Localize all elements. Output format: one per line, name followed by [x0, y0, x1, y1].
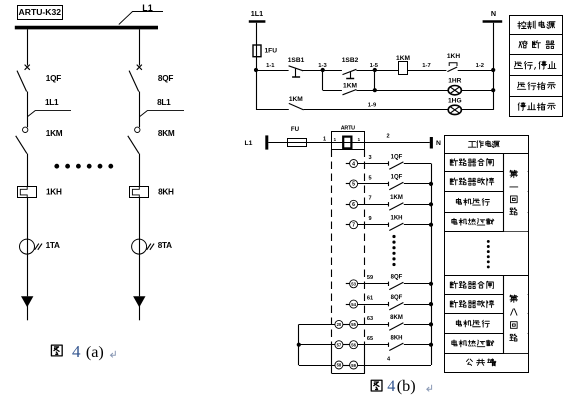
- feeder arrow: [21, 296, 33, 307]
- svg-text:N: N: [491, 9, 496, 18]
- wire stub: [346, 163, 350, 165]
- svg-text:L1: L1: [142, 3, 153, 13]
- wire: [299, 324, 335, 326]
- wire: [358, 183, 389, 185]
- common jumper bus (left): [298, 324, 300, 365]
- terminal N: [483, 9, 503, 21]
- wire stub: [346, 183, 350, 185]
- wire: [358, 204, 389, 206]
- device label box ARTU-K32: [18, 6, 63, 20]
- svg-text:ARTU: ARTU: [341, 126, 355, 132]
- contact 1KM: [389, 202, 404, 210]
- svg-text:1KH: 1KH: [447, 53, 460, 60]
- contact 1KM auxiliary (seal-in): [343, 90, 357, 95]
- svg-text:1-5: 1-5: [370, 63, 379, 69]
- svg-text:FU: FU: [291, 126, 300, 133]
- wire link: [374, 70, 376, 90]
- svg-text:4: 4: [387, 377, 395, 395]
- junction node 1-1: [254, 63, 275, 72]
- caption figure 4(a): [51, 342, 115, 361]
- junction: [429, 282, 433, 286]
- svg-text:20: 20: [337, 322, 342, 327]
- wire: [358, 324, 389, 326]
- svg-text:6: 6: [352, 202, 355, 208]
- wire: [27, 305, 29, 320]
- busbar L1: [15, 26, 158, 30]
- wire: [139, 92, 141, 128]
- wire: [27, 154, 29, 187]
- wire: [365, 142, 430, 144]
- svg-text:1KM: 1KM: [289, 96, 303, 103]
- wire: [404, 324, 431, 326]
- svg-text:1SB2: 1SB2: [342, 57, 359, 64]
- wire: [139, 197, 141, 239]
- wire: [306, 142, 332, 144]
- wire: [404, 304, 431, 306]
- junction: [429, 202, 433, 206]
- caption figure 4(b): [371, 377, 431, 395]
- contact 1QF: [389, 182, 404, 190]
- svg-text:1HR: 1HR: [448, 78, 461, 85]
- svg-text:8L1: 8L1: [157, 98, 171, 107]
- contactor 8KM: [128, 127, 140, 154]
- wire: [27, 197, 29, 239]
- ellipsis dots between feeders: [54, 164, 113, 169]
- svg-text:8KM: 8KM: [390, 315, 403, 321]
- wire: [27, 29, 29, 65]
- fuse 1FU: [253, 45, 261, 57]
- breaker 8QF: [129, 65, 142, 92]
- wire: [356, 90, 493, 92]
- svg-text:1: 1: [323, 137, 326, 143]
- junction: [429, 182, 433, 186]
- svg-text:ARTU-K32: ARTU-K32: [19, 7, 62, 17]
- terminal 59: [350, 361, 358, 369]
- terminal 53: [350, 280, 358, 288]
- wire stop branch: [256, 70, 289, 110]
- junction: [429, 302, 433, 306]
- svg-text:8TA: 8TA: [158, 241, 172, 250]
- terminal 54: [350, 300, 358, 308]
- pushbutton 1SB1 normally closed: [289, 66, 304, 77]
- wire stub: [346, 224, 350, 226]
- svg-text:5: 5: [352, 182, 355, 188]
- svg-text:1KM: 1KM: [390, 195, 403, 201]
- contact 8QF: [389, 282, 404, 290]
- ARTU power module box: [332, 132, 365, 150]
- junction: [373, 88, 377, 92]
- junction: [429, 223, 433, 227]
- terminal 1L1: [249, 9, 266, 21]
- wire: [358, 283, 389, 285]
- wire parallel branch: [323, 70, 342, 91]
- wire: [139, 154, 141, 187]
- contact 8QF: [389, 302, 404, 310]
- svg-text:1-9: 1-9: [368, 102, 377, 108]
- svg-text:1TA: 1TA: [46, 241, 60, 250]
- junction: [491, 68, 495, 72]
- svg-text:1-3: 1-3: [318, 63, 327, 69]
- svg-text:61: 61: [367, 296, 373, 302]
- run lamp 1HR: [448, 86, 461, 95]
- wire: [299, 365, 335, 367]
- wire: [356, 70, 398, 72]
- svg-text:8QF: 8QF: [158, 74, 173, 83]
- wire stub: [346, 283, 350, 285]
- wire: [358, 344, 389, 346]
- svg-text:8KH: 8KH: [158, 188, 174, 197]
- wire stub: [346, 304, 350, 306]
- terminal 4: [350, 160, 358, 168]
- svg-text:8KH: 8KH: [390, 336, 402, 342]
- wire stub: [346, 204, 350, 206]
- svg-text:(b): (b): [397, 377, 416, 395]
- junction: [491, 88, 495, 92]
- wire: [256, 23, 258, 45]
- svg-text:57: 57: [337, 342, 342, 347]
- svg-text:53: 53: [351, 282, 356, 287]
- svg-text:1HG: 1HG: [448, 98, 462, 105]
- net label 1L1 with leader: [28, 98, 71, 117]
- terminal L1 (b): [245, 135, 267, 149]
- junction node 1-5: [370, 63, 379, 72]
- junction: [429, 322, 433, 326]
- ellipsis dots (channels 2..7): [392, 235, 395, 266]
- contact 1QF: [389, 161, 404, 169]
- wire: [404, 183, 431, 185]
- wire N bus: [493, 23, 495, 110]
- svg-text:8KM: 8KM: [158, 129, 175, 138]
- wire: [358, 365, 389, 367]
- contact 8KM: [389, 322, 404, 330]
- svg-text:N: N: [436, 140, 441, 147]
- svg-text:7: 7: [352, 223, 355, 229]
- svg-text:(a): (a): [86, 343, 104, 361]
- junction: [297, 343, 301, 347]
- ARTU enclosure dashed boundary: [332, 150, 365, 374]
- svg-text:1-2: 1-2: [476, 63, 484, 69]
- current transformer 1TA: [20, 239, 43, 254]
- wire: [256, 70, 289, 72]
- wire: [343, 324, 350, 326]
- wire: [27, 254, 29, 296]
- svg-text:1SB1: 1SB1: [288, 57, 305, 64]
- svg-text:56: 56: [351, 343, 356, 348]
- wire: [404, 283, 431, 285]
- wire: [358, 224, 389, 226]
- wire: [458, 70, 494, 72]
- wire: [404, 224, 431, 226]
- wire: [404, 204, 431, 206]
- feeder arrow: [133, 296, 145, 307]
- svg-text:5: 5: [368, 175, 371, 181]
- legend table: control circuit functions: [510, 16, 563, 117]
- svg-text:1QF: 1QF: [46, 74, 61, 83]
- wire: [27, 92, 29, 128]
- contact 1KM auxiliary NC (stop indication): [289, 103, 304, 110]
- fuse FU: [288, 139, 307, 147]
- svg-text:1KM: 1KM: [46, 129, 63, 138]
- wire common to bus: [389, 365, 432, 367]
- contactor coil 1KM: [399, 62, 408, 75]
- terminal 7: [350, 221, 358, 229]
- contact 8KH: [389, 343, 404, 351]
- terminal 57 (common): [335, 341, 343, 349]
- wire: [404, 163, 431, 165]
- breaker 1QF: [17, 65, 30, 92]
- wire: [304, 109, 494, 111]
- terminal 20 (common): [335, 320, 343, 328]
- wire: [407, 70, 446, 72]
- svg-text:4: 4: [72, 342, 81, 361]
- svg-text:1L1: 1L1: [45, 98, 59, 107]
- wire: [139, 254, 141, 296]
- terminal 58 (common): [335, 361, 343, 369]
- svg-text:1KH: 1KH: [46, 188, 62, 197]
- thermal contact 1KH: [447, 63, 457, 72]
- svg-text:1-7: 1-7: [422, 63, 430, 69]
- svg-text:3: 3: [368, 155, 371, 161]
- svg-text:58: 58: [337, 363, 342, 368]
- svg-text:1KH: 1KH: [390, 216, 402, 222]
- terminal 6: [350, 200, 358, 208]
- svg-text:8QF: 8QF: [391, 295, 403, 301]
- wire: [256, 57, 258, 70]
- svg-text:1KM: 1KM: [343, 82, 357, 89]
- wire: [139, 29, 141, 65]
- thermal relay 8KH: [130, 187, 149, 198]
- thermal relay 1KH: [18, 187, 37, 198]
- wire: [343, 344, 350, 346]
- contact 1KH: [389, 223, 404, 231]
- contactor 1KM: [16, 127, 28, 154]
- terminal 55: [350, 320, 358, 328]
- stop lamp 1HG: [448, 105, 461, 114]
- svg-text:65: 65: [367, 336, 373, 342]
- svg-text:2: 2: [386, 134, 389, 140]
- junction: [429, 343, 433, 347]
- svg-text:1L1: 1L1: [251, 9, 263, 18]
- svg-text:8QF: 8QF: [391, 275, 403, 281]
- svg-text:1QF: 1QF: [391, 175, 403, 181]
- terminal 56: [350, 341, 358, 349]
- wire: [343, 365, 350, 367]
- svg-text:59: 59: [351, 363, 356, 368]
- wire: [404, 344, 431, 346]
- svg-text:63: 63: [367, 316, 373, 322]
- svg-text:1FU: 1FU: [265, 48, 278, 55]
- junction node 1-3: [318, 63, 327, 72]
- current transformer 8TA: [132, 239, 155, 254]
- net label L1 with leader: [119, 3, 163, 25]
- svg-text:55: 55: [351, 322, 356, 327]
- wire: [299, 344, 335, 346]
- net label 8L1 with leader: [140, 98, 184, 117]
- pushbutton 1SB2 normally open: [343, 69, 357, 78]
- terminal N (b): [430, 137, 441, 149]
- svg-text:59: 59: [367, 275, 373, 281]
- svg-text:54: 54: [351, 302, 356, 307]
- wire: [139, 305, 141, 320]
- svg-text:L1: L1: [245, 140, 253, 147]
- terminal 5: [350, 180, 358, 188]
- svg-text:9: 9: [368, 216, 371, 222]
- svg-text:1QF: 1QF: [391, 154, 403, 160]
- wire: [358, 304, 389, 306]
- right return bus: [431, 164, 433, 366]
- svg-text:1KM: 1KM: [396, 55, 410, 62]
- svg-text:4: 4: [352, 161, 355, 167]
- svg-text:1-1: 1-1: [266, 63, 275, 69]
- wire: [358, 163, 389, 165]
- wire: [268, 142, 287, 144]
- svg-text:7: 7: [368, 196, 371, 202]
- wire: [303, 70, 342, 72]
- legend table: ARTU I/O functions: [444, 136, 528, 373]
